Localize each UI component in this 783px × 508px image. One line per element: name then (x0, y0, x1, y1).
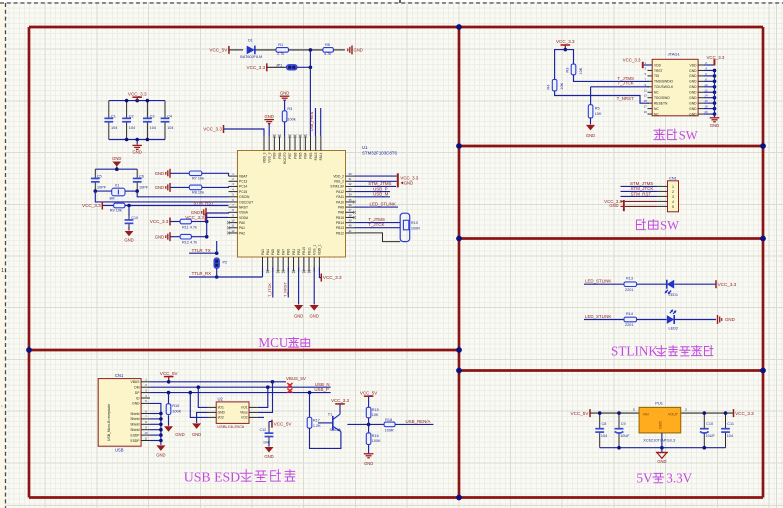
svg-text:PB15: PB15 (336, 216, 344, 220)
svg-text:C6: C6 (139, 174, 144, 178)
svg-text:Vbus: Vbus (240, 411, 248, 415)
svg-text:41: 41 (348, 229, 352, 233)
svg-text:104: 104 (129, 126, 135, 130)
svg-text:14: 14 (704, 94, 708, 98)
svg-text:R17: R17 (313, 418, 320, 422)
svg-text:R10: R10 (172, 404, 179, 408)
svg-text:I/O2: I/O2 (218, 416, 224, 420)
svg-text:P2: P2 (223, 261, 228, 265)
svg-text:VCC_3.3: VCC_3.3 (331, 398, 349, 403)
svg-text:TRST: TRST (654, 69, 663, 73)
svg-text:30: 30 (348, 172, 352, 176)
svg-text:10UF: 10UF (620, 434, 630, 438)
svg-text:C5: C5 (97, 174, 102, 178)
svg-text:12: 12 (231, 229, 235, 233)
svg-text:PA2: PA2 (239, 231, 245, 235)
svg-text:20: 20 (704, 110, 708, 114)
svg-text:GND: GND (689, 69, 697, 73)
svg-text:STM3.3V: STM3.3V (330, 185, 345, 189)
svg-text:19: 19 (644, 110, 648, 114)
svg-text:C4: C4 (167, 115, 172, 119)
svg-text:PA10: PA10 (336, 200, 344, 204)
svg-text:104: 104 (601, 434, 607, 438)
svg-text:GND: GND (155, 234, 164, 239)
svg-text:2: 2 (672, 190, 674, 194)
svg-text:35: 35 (348, 198, 352, 202)
svg-text:1: 1 (645, 61, 647, 65)
svg-text:R3: R3 (565, 68, 569, 73)
svg-text:PB12: PB12 (336, 231, 344, 235)
svg-text:USB_Micro-B receptacle: USB_Micro-B receptacle (107, 404, 111, 441)
svg-text:OSCOUT: OSCOUT (239, 200, 253, 204)
svg-text:8: 8 (705, 77, 707, 81)
svg-text:PB0: PB0 (287, 249, 291, 255)
svg-text:PB9: PB9 (273, 152, 277, 158)
svg-text:VCC_5V: VCC_5V (360, 390, 377, 395)
svg-text:GND: GND (310, 314, 319, 319)
svg-text:I/O2: I/O2 (241, 416, 247, 420)
svg-text:PA14: PA14 (319, 152, 323, 160)
svg-text:VDDA: VDDA (239, 216, 249, 220)
svg-text:LED_STLINK: LED_STLINK (370, 201, 396, 206)
svg-text:R15: R15 (372, 408, 379, 412)
svg-text:BAT60JFILM: BAT60JFILM (240, 55, 262, 59)
svg-text:5V: 5V (636, 471, 653, 486)
svg-text:VSS_2: VSS_2 (334, 180, 344, 184)
svg-text:PB2: PB2 (297, 249, 301, 255)
svg-text:R5: R5 (325, 43, 330, 47)
svg-text:2.7k: 2.7k (277, 52, 284, 56)
svg-text:Shield: Shield (130, 417, 139, 421)
svg-text:TTLR_TX: TTLR_TX (192, 248, 211, 253)
svg-text:CN1: CN1 (669, 176, 678, 181)
svg-text:VOUT: VOUT (668, 413, 679, 417)
svg-text:STLINK: STLINK (611, 344, 658, 359)
svg-text:VCC_5V: VCC_5V (571, 411, 590, 416)
svg-text:C3: C3 (150, 115, 155, 119)
svg-text:GND: GND (689, 80, 697, 84)
svg-text:4: 4 (232, 187, 234, 191)
svg-text:T_JTCK: T_JTCK (268, 283, 272, 297)
svg-text:PC15: PC15 (239, 190, 247, 194)
svg-text:NRST: NRST (239, 205, 248, 209)
svg-text:SW: SW (660, 218, 679, 232)
svg-text:R18: R18 (385, 418, 392, 422)
svg-text:VCC_3.3: VCC_3.3 (556, 39, 575, 44)
svg-text:PA9: PA9 (338, 205, 344, 209)
svg-text:GND: GND (218, 411, 226, 415)
svg-text:R12 4.7k: R12 4.7k (182, 241, 197, 245)
svg-text:5: 5 (672, 205, 674, 209)
svg-text:10K: 10K (595, 112, 602, 116)
svg-text:R11 4.7k: R11 4.7k (182, 225, 197, 229)
svg-text:▪: ▪ (1, 404, 2, 408)
svg-text:11: 11 (644, 88, 647, 92)
svg-text:PA11: PA11 (336, 195, 344, 199)
svg-text:ESDP: ESDP (131, 439, 141, 443)
svg-text:PB8: PB8 (278, 152, 282, 158)
svg-text:VCC_3.3: VCC_3.3 (247, 65, 266, 70)
svg-text:R13: R13 (626, 277, 633, 281)
svg-text:3: 3 (145, 388, 147, 392)
svg-text:CN1: CN1 (115, 373, 124, 378)
svg-text:4: 4 (672, 200, 674, 204)
svg-text:37: 37 (348, 208, 352, 212)
svg-text:10K: 10K (372, 413, 379, 417)
svg-text:18: 18 (704, 105, 708, 109)
svg-text:36: 36 (348, 203, 352, 207)
svg-text:GND: GND (192, 432, 201, 437)
svg-text:GND: GND (294, 314, 303, 319)
svg-text:STM32F103C8T6: STM32F103C8T6 (362, 151, 397, 156)
svg-text:LED1: LED1 (669, 293, 679, 297)
svg-text:2201: 2201 (625, 323, 633, 327)
svg-text:TTLR_RX: TTLR_RX (192, 271, 212, 276)
svg-text:33: 33 (348, 187, 352, 191)
svg-text:10UF: 10UF (706, 434, 716, 438)
svg-text:6: 6 (145, 409, 147, 413)
svg-text:VDD: VDD (690, 63, 698, 67)
svg-text:C1: C1 (111, 115, 116, 119)
svg-text:GND: GND (689, 74, 697, 78)
svg-text:XC6210T/APG3.3: XC6210T/APG3.3 (643, 437, 676, 442)
svg-text:STM_JTCK: STM_JTCK (631, 186, 654, 191)
svg-text:U1: U1 (362, 145, 368, 150)
svg-text:LED_STLINK: LED_STLINK (585, 279, 611, 284)
svg-text:PB3: PB3 (309, 152, 313, 158)
svg-text:TDI: TDI (654, 74, 659, 78)
svg-text:100k: 100k (287, 117, 295, 121)
svg-text:VCC_3.3: VCC_3.3 (718, 282, 737, 287)
svg-text:R3: R3 (287, 107, 292, 111)
svg-text:VIN: VIN (643, 413, 649, 417)
svg-text:TDO/SWO: TDO/SWO (654, 96, 670, 100)
svg-text:PA0: PA0 (239, 221, 245, 225)
svg-text:11: 11 (232, 224, 235, 228)
svg-text:GND: GND (659, 421, 663, 429)
svg-text:PB4: PB4 (304, 152, 308, 158)
svg-text:3: 3 (645, 66, 647, 70)
svg-text:R16: R16 (372, 434, 379, 438)
svg-text:MCU: MCU (258, 335, 289, 350)
svg-text:PB10: PB10 (302, 247, 306, 255)
svg-text:USBLC6-2SC6: USBLC6-2SC6 (217, 424, 245, 429)
svg-text:DP: DP (135, 391, 140, 395)
svg-text:R5: R5 (595, 107, 600, 111)
svg-text:LED2: LED2 (669, 327, 679, 331)
svg-text:3.3V: 3.3V (666, 471, 692, 486)
svg-text:GND: GND (725, 317, 735, 322)
svg-text:VDD_3: VDD_3 (262, 152, 266, 163)
svg-text:GND: GND (354, 47, 363, 52)
svg-text:3: 3 (232, 182, 234, 186)
svg-text:PB5: PB5 (298, 152, 302, 158)
svg-text:34: 34 (348, 193, 352, 197)
svg-text:GND: GND (586, 133, 595, 138)
svg-text:GND: GND (404, 181, 413, 186)
svg-text:10K: 10K (560, 82, 564, 89)
svg-text:8: 8 (232, 208, 234, 212)
svg-text:VSS_1: VSS_1 (313, 245, 317, 255)
svg-text:38: 38 (348, 213, 352, 217)
svg-text:2: 2 (145, 383, 147, 387)
svg-text:STM_JTMS: STM_JTMS (368, 181, 391, 186)
svg-text:10: 10 (231, 218, 235, 222)
svg-text:7: 7 (145, 415, 147, 419)
svg-text:T_JTCK: T_JTCK (368, 222, 384, 227)
svg-text:VCC_3.3: VCC_3.3 (735, 411, 754, 416)
svg-text:JTAG1: JTAG1 (668, 52, 681, 57)
svg-text:PB14: PB14 (336, 221, 344, 225)
svg-text:VCC_3.3: VCC_3.3 (150, 219, 169, 224)
svg-text:USB_M: USB_M (373, 192, 388, 197)
svg-text:VCC_3.3: VCC_3.3 (323, 275, 342, 280)
svg-text:PA7: PA7 (281, 249, 285, 255)
svg-text:7: 7 (232, 203, 234, 207)
svg-text:5: 5 (645, 72, 647, 76)
svg-text:GND: GND (264, 454, 273, 459)
svg-text:3: 3 (633, 408, 635, 412)
svg-text:GND: GND (133, 150, 142, 155)
svg-text:2: 2 (685, 408, 687, 412)
svg-text:104: 104 (150, 126, 156, 130)
svg-text:GND: GND (364, 461, 373, 466)
svg-text:Shield: Shield (130, 423, 139, 427)
svg-text:GND: GND (689, 96, 697, 100)
svg-text:VCC_3.3: VCC_3.3 (400, 175, 418, 180)
svg-text:PA5: PA5 (271, 249, 275, 255)
svg-text:NC: NC (654, 112, 659, 116)
svg-text:1: 1 (145, 378, 147, 382)
svg-text:C9: C9 (621, 422, 626, 426)
svg-text:X1: X1 (115, 184, 120, 188)
svg-text:R14: R14 (626, 312, 633, 316)
svg-text:GND: GND (175, 432, 184, 437)
svg-text:GND: GND (155, 185, 164, 190)
svg-text:104: 104 (167, 126, 173, 130)
svg-text:VDD: VDD (654, 63, 662, 67)
svg-text:6: 6 (705, 72, 707, 76)
svg-text:Shield: Shield (130, 412, 139, 416)
svg-text:5: 5 (232, 193, 234, 197)
svg-text:GND: GND (155, 171, 164, 176)
svg-text:I/O1: I/O1 (241, 406, 247, 410)
svg-text:39: 39 (348, 218, 352, 222)
svg-text:JP1: JP1 (276, 63, 283, 67)
svg-text:5: 5 (145, 399, 147, 403)
svg-text:NC: NC (654, 107, 659, 111)
svg-text:D1: D1 (248, 39, 253, 43)
svg-text:PC14: PC14 (239, 185, 247, 189)
svg-text:32: 32 (348, 182, 352, 186)
svg-text:3: 3 (672, 195, 674, 199)
svg-text:GND: GND (689, 112, 697, 116)
svg-text:100R: 100R (411, 226, 420, 230)
svg-text:10PF: 10PF (139, 185, 149, 189)
svg-text:GND: GND (689, 91, 697, 95)
svg-text:VCC_3.3: VCC_3.3 (185, 215, 204, 220)
svg-text:11: 11 (145, 436, 148, 440)
svg-text:R7 10k: R7 10k (192, 176, 204, 180)
svg-text:VBUS: VBUS (131, 380, 141, 384)
svg-text:PA6: PA6 (276, 249, 280, 255)
svg-text:GND: GND (265, 114, 274, 119)
svg-text:10: 10 (704, 83, 708, 87)
svg-text:C11: C11 (727, 422, 734, 426)
svg-text:15: 15 (644, 99, 648, 103)
svg-text:VCC_5V: VCC_5V (274, 421, 293, 426)
svg-text:10PF: 10PF (97, 185, 107, 189)
svg-text:9: 9 (232, 213, 234, 217)
svg-text:GND: GND (132, 402, 140, 406)
svg-text:PA1: PA1 (239, 226, 245, 230)
svg-text:10K: 10K (579, 67, 583, 74)
svg-text:RESETN: RESETN (654, 101, 668, 105)
svg-text:OSCIN: OSCIN (239, 195, 250, 199)
svg-text:100K: 100K (372, 439, 381, 443)
svg-text:PU1: PU1 (655, 401, 664, 406)
svg-text:40: 40 (348, 224, 352, 228)
svg-text:R9 10k: R9 10k (110, 208, 122, 212)
svg-text:GND: GND (280, 91, 289, 96)
svg-text:8: 8 (145, 420, 147, 424)
svg-text:USB: USB (115, 448, 124, 453)
svg-text:PB1: PB1 (292, 249, 296, 255)
svg-text:GND: GND (112, 156, 121, 161)
svg-text:R10: R10 (411, 221, 418, 225)
svg-text:GND: GND (657, 459, 666, 464)
svg-text:T_JTCK: T_JTCK (618, 81, 634, 86)
svg-text:PA8: PA8 (338, 211, 344, 215)
svg-text:DM: DM (134, 386, 139, 390)
svg-text:ESDP: ESDP (131, 433, 141, 437)
svg-text:13: 13 (644, 94, 648, 98)
svg-text:GND: GND (689, 85, 697, 89)
svg-text:4: 4 (145, 394, 147, 398)
svg-text:104: 104 (263, 441, 269, 445)
svg-text:GND: GND (710, 123, 719, 128)
svg-text:USB_N: USB_N (315, 382, 330, 387)
svg-text:9: 9 (145, 426, 147, 430)
svg-text:R1: R1 (278, 43, 283, 47)
svg-text:SW: SW (679, 128, 698, 142)
svg-text:PB6: PB6 (293, 152, 297, 158)
svg-text:VBAT: VBAT (239, 174, 247, 178)
svg-text:VDD_1: VDD_1 (318, 244, 322, 255)
svg-text:PA12: PA12 (336, 190, 344, 194)
svg-text:PA15: PA15 (314, 152, 318, 160)
svg-text:1: 1 (1, 268, 4, 274)
svg-text:C8: C8 (602, 422, 607, 426)
svg-text:1: 1 (672, 185, 674, 189)
svg-text:TCK/SWCLK: TCK/SWCLK (654, 85, 674, 89)
svg-text:T_NRST: T_NRST (617, 96, 634, 101)
svg-text:C10: C10 (706, 422, 713, 426)
svg-text:NC: NC (654, 91, 659, 95)
svg-text:T_NRST: T_NRST (284, 282, 288, 297)
svg-text:8M: 8M (110, 197, 115, 201)
svg-text:I/O1: I/O1 (218, 406, 224, 410)
svg-text:GND: GND (156, 452, 165, 457)
svg-text:PC13: PC13 (239, 180, 247, 184)
svg-text:STM_RST: STM_RST (193, 200, 214, 205)
svg-text:USB ESD: USB ESD (184, 469, 240, 484)
svg-text:9: 9 (645, 83, 647, 87)
svg-text:TMS/SWDIO: TMS/SWDIO (654, 80, 673, 84)
svg-text:6: 6 (232, 198, 234, 202)
svg-text:104: 104 (111, 126, 117, 130)
svg-text:1.2K: 1.2K (313, 424, 321, 428)
svg-text:VSS_3: VSS_3 (267, 152, 271, 162)
svg-text:VCC_5V: VCC_5V (160, 371, 179, 376)
svg-text:USB_PREN: USB_PREN (310, 111, 314, 131)
svg-text:7: 7 (645, 77, 647, 81)
svg-text:C10: C10 (131, 216, 138, 220)
svg-text:Shield: Shield (130, 428, 139, 432)
svg-text:100R: 100R (385, 428, 394, 432)
svg-text:2: 2 (232, 177, 234, 181)
svg-text:10: 10 (144, 431, 148, 435)
svg-text:VCC_5V: VCC_5V (209, 48, 228, 53)
svg-text:VCC_3.3: VCC_3.3 (128, 91, 147, 96)
svg-text:C12: C12 (260, 428, 267, 432)
svg-text:R8 10k: R8 10k (192, 190, 204, 194)
svg-text:PA4: PA4 (266, 249, 270, 255)
svg-text:STM_RST: STM_RST (631, 191, 652, 196)
svg-text:16: 16 (704, 99, 708, 103)
svg-text:PB13: PB13 (336, 226, 344, 230)
svg-text:VBUS_5V: VBUS_5V (286, 376, 306, 381)
svg-text:2201: 2201 (625, 288, 633, 292)
svg-text:VSSA: VSSA (239, 211, 249, 215)
svg-text:2: 2 (705, 61, 707, 65)
svg-text:104: 104 (727, 434, 733, 438)
svg-text:PB11: PB11 (307, 247, 311, 255)
svg-text:VCC_3.3: VCC_3.3 (203, 127, 222, 132)
svg-text:USB_P: USB_P (314, 387, 328, 392)
svg-text:PB7: PB7 (288, 152, 292, 158)
svg-text:T1: T1 (328, 412, 332, 416)
svg-text:LED_STLINK: LED_STLINK (585, 314, 611, 319)
svg-text:VCC_3.3: VCC_3.3 (623, 58, 641, 63)
svg-text:VDD_2: VDD_2 (333, 174, 344, 178)
svg-text:USB_REN/A: USB_REN/A (406, 419, 431, 424)
svg-text:R4: R4 (547, 85, 551, 90)
svg-text:U2: U2 (218, 396, 224, 401)
svg-text:GND: GND (689, 101, 697, 105)
svg-text:GND: GND (689, 107, 697, 111)
svg-text:C2: C2 (129, 115, 134, 119)
svg-text:GND: GND (609, 203, 618, 208)
svg-text:VCC_3.3: VCC_3.3 (82, 203, 101, 208)
svg-text:BOOT0: BOOT0 (283, 152, 287, 163)
svg-text:PA3: PA3 (261, 249, 265, 255)
svg-text:4.7k: 4.7k (324, 52, 331, 56)
svg-text:4: 4 (705, 66, 707, 70)
svg-text:1: 1 (232, 172, 234, 176)
svg-text:S8050: S8050 (330, 428, 341, 432)
svg-text:GND: GND (124, 237, 133, 242)
svg-text:17: 17 (644, 105, 648, 109)
svg-text:VCC_3.3: VCC_3.3 (707, 55, 725, 60)
svg-text:100K: 100K (172, 409, 181, 413)
svg-text:31: 31 (348, 177, 352, 181)
svg-text:12: 12 (704, 88, 708, 92)
